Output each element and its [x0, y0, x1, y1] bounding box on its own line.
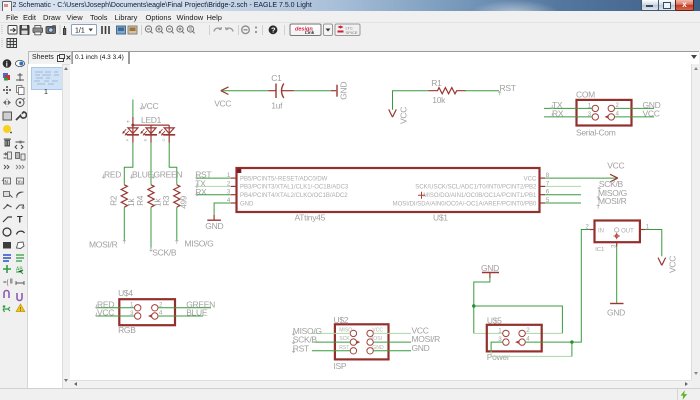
wire RED to U$4 pin1 — [96, 306, 134, 308]
r11: smash / miter — [4, 192, 10, 197]
ground GND above U$5 — [481, 262, 499, 277]
wire R4 to SCK/B — [150, 207, 152, 249]
wire pin 6 stub — [545, 193, 581, 195]
svg-text:MISO/G: MISO/G — [184, 238, 213, 248]
svg-text:i: i — [6, 59, 8, 68]
wire U$5 row1 (light) — [473, 332, 562, 334]
svg-text:U$4: U$4 — [118, 288, 133, 298]
wire U$2 GND out — [373, 349, 411, 351]
label LED1 — [124, 115, 165, 142]
node MOSI/R label right of U$2 — [411, 334, 440, 344]
svg-text:AB: AB — [16, 267, 23, 273]
resistor R2 — [109, 184, 136, 206]
svg-text:IN: IN — [598, 228, 604, 234]
wire IC1 in down to U$5 net — [571, 229, 589, 342]
r19: erc purple pair — [4, 291, 9, 299]
toolbar row 1 — [0, 23, 700, 37]
svg-text:1uf: 1uf — [271, 100, 283, 110]
svg-text:COM: COM — [576, 89, 595, 99]
svg-text:VCC: VCC — [607, 160, 624, 170]
window buttons — [641, 0, 659, 11]
ground GND below IC1 — [607, 303, 625, 317]
svg-text:4: 4 — [226, 196, 230, 203]
svg-text:VCC: VCC — [398, 106, 408, 123]
svg-text:GND: GND — [411, 342, 429, 352]
svg-text:G: G — [160, 138, 165, 141]
svg-text:IC1: IC1 — [595, 247, 604, 253]
wire COM pin4 to VCC label — [614, 115, 653, 117]
node RST label at R1 — [498, 82, 516, 95]
node GREEN label — [151, 169, 182, 179]
svg-text:VCC: VCC — [372, 327, 383, 333]
wire U$5 loop bottom (light) — [491, 351, 572, 356]
toolbar row 2 — [0, 36, 700, 50]
svg-text:MOSI/R: MOSI/R — [598, 196, 627, 206]
wire R3 to MISO/G — [175, 207, 177, 241]
node GREEN label at U$4 — [186, 299, 215, 309]
r15: rect / polygon — [3, 242, 11, 249]
svg-text:MOSI/R: MOSI/R — [89, 239, 118, 249]
svg-text:C1: C1 — [271, 73, 282, 83]
svg-text:GREEN: GREEN — [153, 169, 182, 179]
node MOSI/R label — [89, 239, 126, 249]
svg-text:4: 4 — [526, 335, 530, 342]
wire IC1 out to VCC arrow — [645, 229, 662, 256]
design link button — [290, 24, 321, 36]
wire R2 to MOSI/R — [123, 207, 125, 241]
r14: circle / arc — [3, 228, 11, 236]
wire VCC to R1 — [392, 90, 428, 109]
wire RST to pin 1 — [197, 177, 231, 179]
wire U$5 pin4 to junction B — [525, 341, 572, 343]
pin stubs left — [230, 178, 544, 203]
wire pin 7 stub (light) — [545, 185, 581, 187]
capacitor C1 — [268, 73, 294, 110]
node SCK/B label right — [597, 178, 623, 191]
r3: move / copy — [3, 86, 11, 94]
svg-text:R4: R4 — [136, 195, 145, 206]
svg-text:R1: R1 — [431, 77, 442, 87]
svg-text:2: 2 — [226, 180, 230, 187]
svg-text:OUT: OUT — [621, 228, 634, 234]
r13: wire / text — [3, 217, 12, 222]
two display icons — [117, 26, 126, 34]
v scrollbar — [691, 64, 700, 380]
r20: errors / warning — [3, 307, 10, 312]
svg-text:PB3/PCINT3/XTAL1/CLK1/-OC1B/AD: PB3/PCINT3/XTAL1/CLK1/-OC1B/ADC3 — [240, 184, 349, 190]
svg-text:VCC: VCC — [667, 255, 677, 272]
wire R1 to RST — [465, 89, 499, 91]
dots — [255, 26, 257, 28]
svg-text:U$1: U$1 — [433, 212, 448, 222]
wire pin 5 stub — [545, 202, 581, 204]
svg-text:1k: 1k — [126, 197, 135, 206]
svg-text:499: 499 — [179, 195, 188, 209]
resistor R3 — [161, 184, 188, 208]
grid icon — [7, 39, 17, 48]
wire RX to pin 3 — [197, 193, 231, 195]
wire U$4 pin2 to GREEN — [158, 306, 211, 308]
svg-text:BLUE: BLUE — [132, 169, 154, 179]
svg-text:GND: GND — [205, 221, 223, 231]
svg-text:RX: RX — [552, 108, 564, 118]
svg-text:GND: GND — [607, 307, 625, 317]
voltage regulator IC1 — [585, 220, 649, 253]
svg-text:LED1: LED1 — [141, 115, 162, 125]
svg-text:1: 1 — [498, 327, 502, 334]
help — [269, 25, 278, 34]
node GND label right of U$2 — [411, 342, 429, 352]
svg-text:VCC: VCC — [97, 307, 114, 317]
node SCK/B label at U$2 — [292, 334, 317, 344]
svg-text:A: A — [124, 138, 129, 141]
pin names — [240, 176, 537, 207]
svg-text:Serial-Com: Serial-Com — [576, 127, 616, 137]
svg-text:2: 2 — [615, 101, 619, 108]
node TX label — [195, 178, 206, 188]
wire TX to pin 2 (light) — [197, 185, 231, 187]
svg-text:1: 1 — [226, 172, 230, 179]
svg-text:SCK/USCK/SCL/ADC1/T0/INT0/PCIN: SCK/USCK/SCL/ADC1/T0/INT0/PCINT2/PB2 — [415, 184, 537, 190]
print icon — [33, 28, 43, 33]
svg-text:GND: GND — [481, 262, 499, 272]
resistor R4 — [136, 184, 163, 206]
r2: layers / change-grid — [3, 73, 8, 78]
status bar — [0, 388, 700, 400]
power VCC arrow down at IC1 out — [658, 255, 678, 272]
origin cross — [418, 191, 425, 198]
svg-text:R3: R3 — [161, 195, 170, 206]
svg-text:GND: GND — [240, 201, 254, 207]
connector U$5 power — [486, 315, 541, 362]
node VCC label at LED supply — [139, 100, 158, 110]
left tool palette — [0, 64, 28, 388]
node GND label at COM — [642, 100, 660, 110]
node VCC label at U$4 — [95, 307, 114, 317]
svg-text:Power: Power — [486, 352, 509, 362]
svg-text:MISO: MISO — [339, 327, 352, 333]
svg-text:MOSI: MOSI — [369, 336, 382, 342]
svg-text:PB5/PCINT5/-RESET/ADC0/DW: PB5/PCINT5/-RESET/ADC0/DW — [240, 176, 328, 182]
wire pin 8 to VCC arrow — [545, 177, 616, 179]
node MISO/G label right — [596, 187, 626, 200]
r7: delete / pinswap — [5, 140, 11, 147]
wire loop right vertical — [570, 342, 572, 356]
node MISO/G label — [175, 238, 213, 248]
svg-text:RST: RST — [339, 344, 349, 350]
open icon — [8, 25, 17, 34]
svg-text:10k: 10k — [432, 94, 446, 104]
svg-text:RGB: RGB — [118, 325, 136, 335]
power VCC arrow down at R1 — [388, 106, 408, 123]
node VCC label at COM — [642, 108, 659, 118]
svg-text:MOSI/DI/SDA/AIN0/OC0A/-OC1A/AR: MOSI/DI/SDA/AIN0/OC0A/-OC1A/AREF/PCINT0/… — [392, 201, 536, 207]
node RED label — [102, 169, 121, 179]
node BLUE label — [130, 169, 153, 179]
stop icon — [242, 26, 250, 34]
wire pin 4 to ground — [214, 203, 231, 215]
glue pen icon — [63, 26, 65, 35]
sheets panel — [28, 64, 62, 388]
node MISO/G label at U$2 — [292, 325, 322, 335]
svg-text:ATtiny45: ATtiny45 — [294, 212, 325, 222]
canvas — [70, 64, 691, 380]
svg-text:V=: V= — [18, 179, 24, 184]
image/camera icon — [46, 26, 56, 33]
svg-text:2: 2 — [526, 326, 530, 333]
svg-text:={: ={ — [3, 280, 9, 286]
svg-text:MISO/DO/AIN1/OC0B/OC1A/PCINT1/: MISO/DO/AIN1/OC0B/OC1A/PCINT1/PB1 — [423, 193, 537, 199]
r9: chevrons — [4, 165, 9, 169]
wire LED B cathode to R4 — [150, 142, 152, 184]
resistor R1 — [428, 77, 465, 104]
save icon — [20, 25, 29, 34]
node MOSI/R label right — [596, 196, 626, 209]
node BLUE label at U$4 — [186, 307, 208, 317]
r4: mirror / rotate — [3, 100, 11, 105]
wire IC1 pin3 to ground — [615, 246, 617, 303]
svg-text:T: T — [17, 215, 23, 225]
svg-text:VCC: VCC — [642, 108, 659, 118]
wire TX to COM pin1 — [544, 107, 592, 109]
wire VCC to LED1 anode — [131, 99, 133, 117]
connector COM serial — [576, 89, 632, 137]
node RST label at U$2 — [292, 343, 309, 353]
wire VCC to U$4 pin3 — [96, 315, 134, 317]
svg-text:SPICE: SPICE — [346, 30, 358, 35]
junction A — [472, 304, 475, 307]
columns icon — [102, 26, 109, 34]
wire U$2 MOSI out — [373, 341, 411, 343]
svg-text:PB4/PCINT4/XTAL2/CLKO/OC1B/ADC: PB4/PCINT4/XTAL2/CLKO/OC1B/ADC2 — [240, 193, 348, 199]
r10: name / value — [4, 178, 11, 184]
grip dots — [1, 25, 3, 35]
svg-text:VCC: VCC — [214, 98, 231, 108]
svg-text:RED: RED — [104, 169, 121, 179]
svg-text:2: 2 — [159, 301, 163, 308]
ground GND rotated right of C1 — [331, 81, 348, 99]
ground GND below U$1 — [205, 215, 223, 231]
wire U$4 pin4 to BLUE — [158, 315, 203, 317]
svg-text:4: 4 — [159, 309, 163, 316]
wire RX to COM pin3 — [544, 115, 592, 117]
svg-text:N: N — [5, 179, 8, 184]
wire C1 to GND — [293, 89, 330, 91]
power VCC arrow right — [607, 160, 624, 181]
wire VCC to C1 — [222, 89, 268, 91]
svg-text:VCC: VCC — [141, 100, 158, 110]
junction B — [570, 340, 573, 343]
svg-text:ISP: ISP — [333, 360, 346, 370]
node TX label at COM — [550, 100, 562, 110]
wire U$2 VCC out (light) — [373, 332, 411, 334]
wire MISO/G to U$2 (light) — [311, 332, 349, 334]
svg-text:GND: GND — [338, 81, 348, 99]
svg-text:?: ? — [271, 25, 276, 34]
r1: info / eye — [3, 59, 12, 68]
title bar — [0, 0, 700, 11]
pin numbers — [226, 172, 549, 204]
node RST label left of U$1 — [195, 169, 211, 179]
sheets panel scrollbar — [62, 64, 71, 390]
wire COM pin2 to GND label — [614, 107, 653, 109]
r17: junction / label — [3, 265, 11, 273]
svg-text:SCK: SCK — [339, 336, 350, 342]
connector U$2 ISP — [333, 315, 388, 371]
power VCC arrow left of C1 — [214, 86, 231, 108]
svg-text:BLUE: BLUE — [186, 307, 208, 317]
r12: split / invoke — [4, 205, 12, 209]
sheet combo — [72, 24, 97, 35]
svg-text:Link: Link — [305, 30, 315, 35]
LED LED1 (triple RGB led) — [122, 117, 174, 143]
node VCC label right of U$2 — [411, 325, 428, 335]
r16: bus / net — [3, 255, 11, 261]
wire GND down to junction — [473, 278, 489, 333]
connector U$4 RGB — [118, 288, 175, 335]
node RX label at COM — [550, 108, 563, 118]
wire RST to U$2 — [311, 349, 349, 351]
svg-text:3: 3 — [226, 188, 230, 195]
undo redo — [214, 27, 221, 31]
svg-text:RST: RST — [292, 343, 308, 353]
svg-text:R2: R2 — [109, 195, 118, 206]
wire junction to right branch — [473, 306, 562, 333]
r8: replace / gateswap — [4, 153, 7, 159]
h scrollbar — [70, 380, 691, 389]
wire LED C cathode to R3 — [169, 142, 177, 184]
svg-text:1/1: 1/1 — [75, 27, 85, 34]
wire U$5 pin3 loop — [491, 342, 503, 351]
svg-text:RST: RST — [499, 82, 515, 92]
magnifier icons x5 — [145, 25, 194, 33]
svg-text:B: B — [142, 138, 147, 141]
node SCK/B label — [149, 247, 176, 257]
svg-text:GND: GND — [372, 344, 384, 350]
tab row — [0, 50, 700, 64]
r6: paste — [3, 125, 11, 133]
op-amp U1 : microcontroller ATtiny45 body — [226, 168, 549, 222]
svg-text:4: 4 — [615, 110, 619, 117]
node RX label — [195, 186, 207, 196]
wire LED A cathode to R2 — [124, 142, 133, 184]
sheet thumbnail — [31, 67, 63, 90]
menu bar — [0, 11, 700, 23]
r5: group / wrench — [3, 112, 12, 120]
svg-text:SCK/B: SCK/B — [152, 247, 177, 257]
node RED label at U$4 — [95, 299, 114, 309]
svg-text:!: ! — [20, 307, 22, 313]
svg-text:VCC: VCC — [523, 176, 536, 182]
wire SCK/B to U$2 — [311, 341, 349, 343]
